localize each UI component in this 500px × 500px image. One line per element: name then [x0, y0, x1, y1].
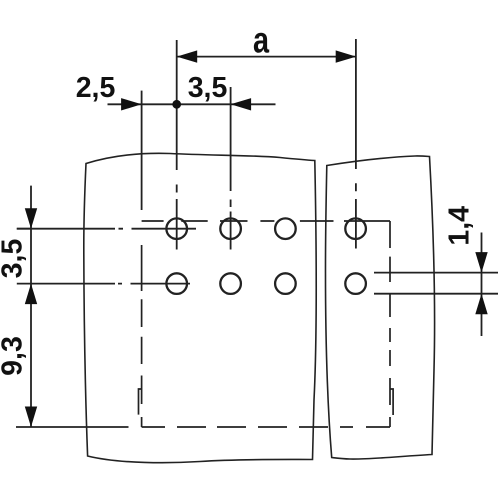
- dashed component outline: top edge: [142, 220, 390, 222]
- dimension line a: [177, 56, 357, 58]
- latch foot mark right: [390, 389, 393, 415]
- plate outline left (broken-out PCB section): [84, 153, 316, 462]
- hole H8 row2 col4: [345, 273, 366, 294]
- latch foot mark left: [139, 389, 142, 415]
- dashed component outline: right edge: [389, 221, 391, 427]
- dimension line vertical right (1,4): [481, 233, 483, 337]
- plate outline right (broken-out PCB section): [325, 156, 434, 459]
- hole H4 row1 col4: [345, 218, 366, 239]
- svg-text:3,5: 3,5: [188, 72, 228, 104]
- extension line row1 left: [17, 228, 31, 230]
- arrow 1,4 up (tip at lower pad line): [475, 294, 487, 315]
- centerline row 1 (left): [17, 228, 196, 230]
- arrow left dim down (tip at bottom line): [25, 407, 37, 428]
- centerline row 2 (left): [17, 283, 190, 285]
- arrow dim a right (pointing right, tip at col4): [336, 50, 357, 62]
- extension line x=141.6 for dim 2,5 / dashed outline left: [141, 91, 143, 210]
- dashed component outline: left edge: [141, 245, 143, 427]
- extension line pad top (1,4 upper): [374, 272, 498, 274]
- arrow dim 3,5 top (pointing left, tip at x=230.6): [231, 98, 252, 110]
- extension line pad bottom (1,4 lower): [374, 293, 498, 295]
- svg-text:a: a: [253, 20, 270, 61]
- dashed component outline: bottom edge: [142, 426, 390, 428]
- svg-text:2,5: 2,5: [76, 72, 116, 104]
- hole H7 row2 col3: [275, 273, 296, 294]
- extension line bottom left (y=427): [16, 426, 129, 428]
- centerline column 4: [355, 39, 357, 249]
- hole H1 row1 col1: [166, 218, 187, 239]
- svg-text:3,5: 3,5: [0, 239, 29, 279]
- hole H2 row1 col2: [220, 218, 241, 239]
- hole H6 row2 col2: [220, 273, 241, 294]
- arrow dim 2,5 (pointing right, tip at x=141.6): [121, 98, 142, 110]
- dimension line vertical left (3,5 / 9,3): [30, 186, 32, 427]
- centerline column 1: [176, 40, 178, 250]
- hole H5 row2 col1: [166, 273, 187, 294]
- arrow left dim up (tip at row2): [25, 284, 37, 305]
- svg-text:1,4: 1,4: [444, 206, 476, 246]
- centerline column 2: [230, 87, 232, 250]
- dimension line 2,5 / 3,5 top: [108, 103, 276, 105]
- dot terminator at col1 on top dimension line: [172, 100, 181, 109]
- arrow dim a left (pointing left, tip at col1): [177, 50, 198, 62]
- arrow 1,4 down (tip at upper pad line): [475, 252, 487, 273]
- svg-text:9,3: 9,3: [0, 336, 29, 376]
- arrow left dim down (tip at row1): [25, 208, 37, 229]
- hole H3 row1 col3: [275, 218, 296, 239]
